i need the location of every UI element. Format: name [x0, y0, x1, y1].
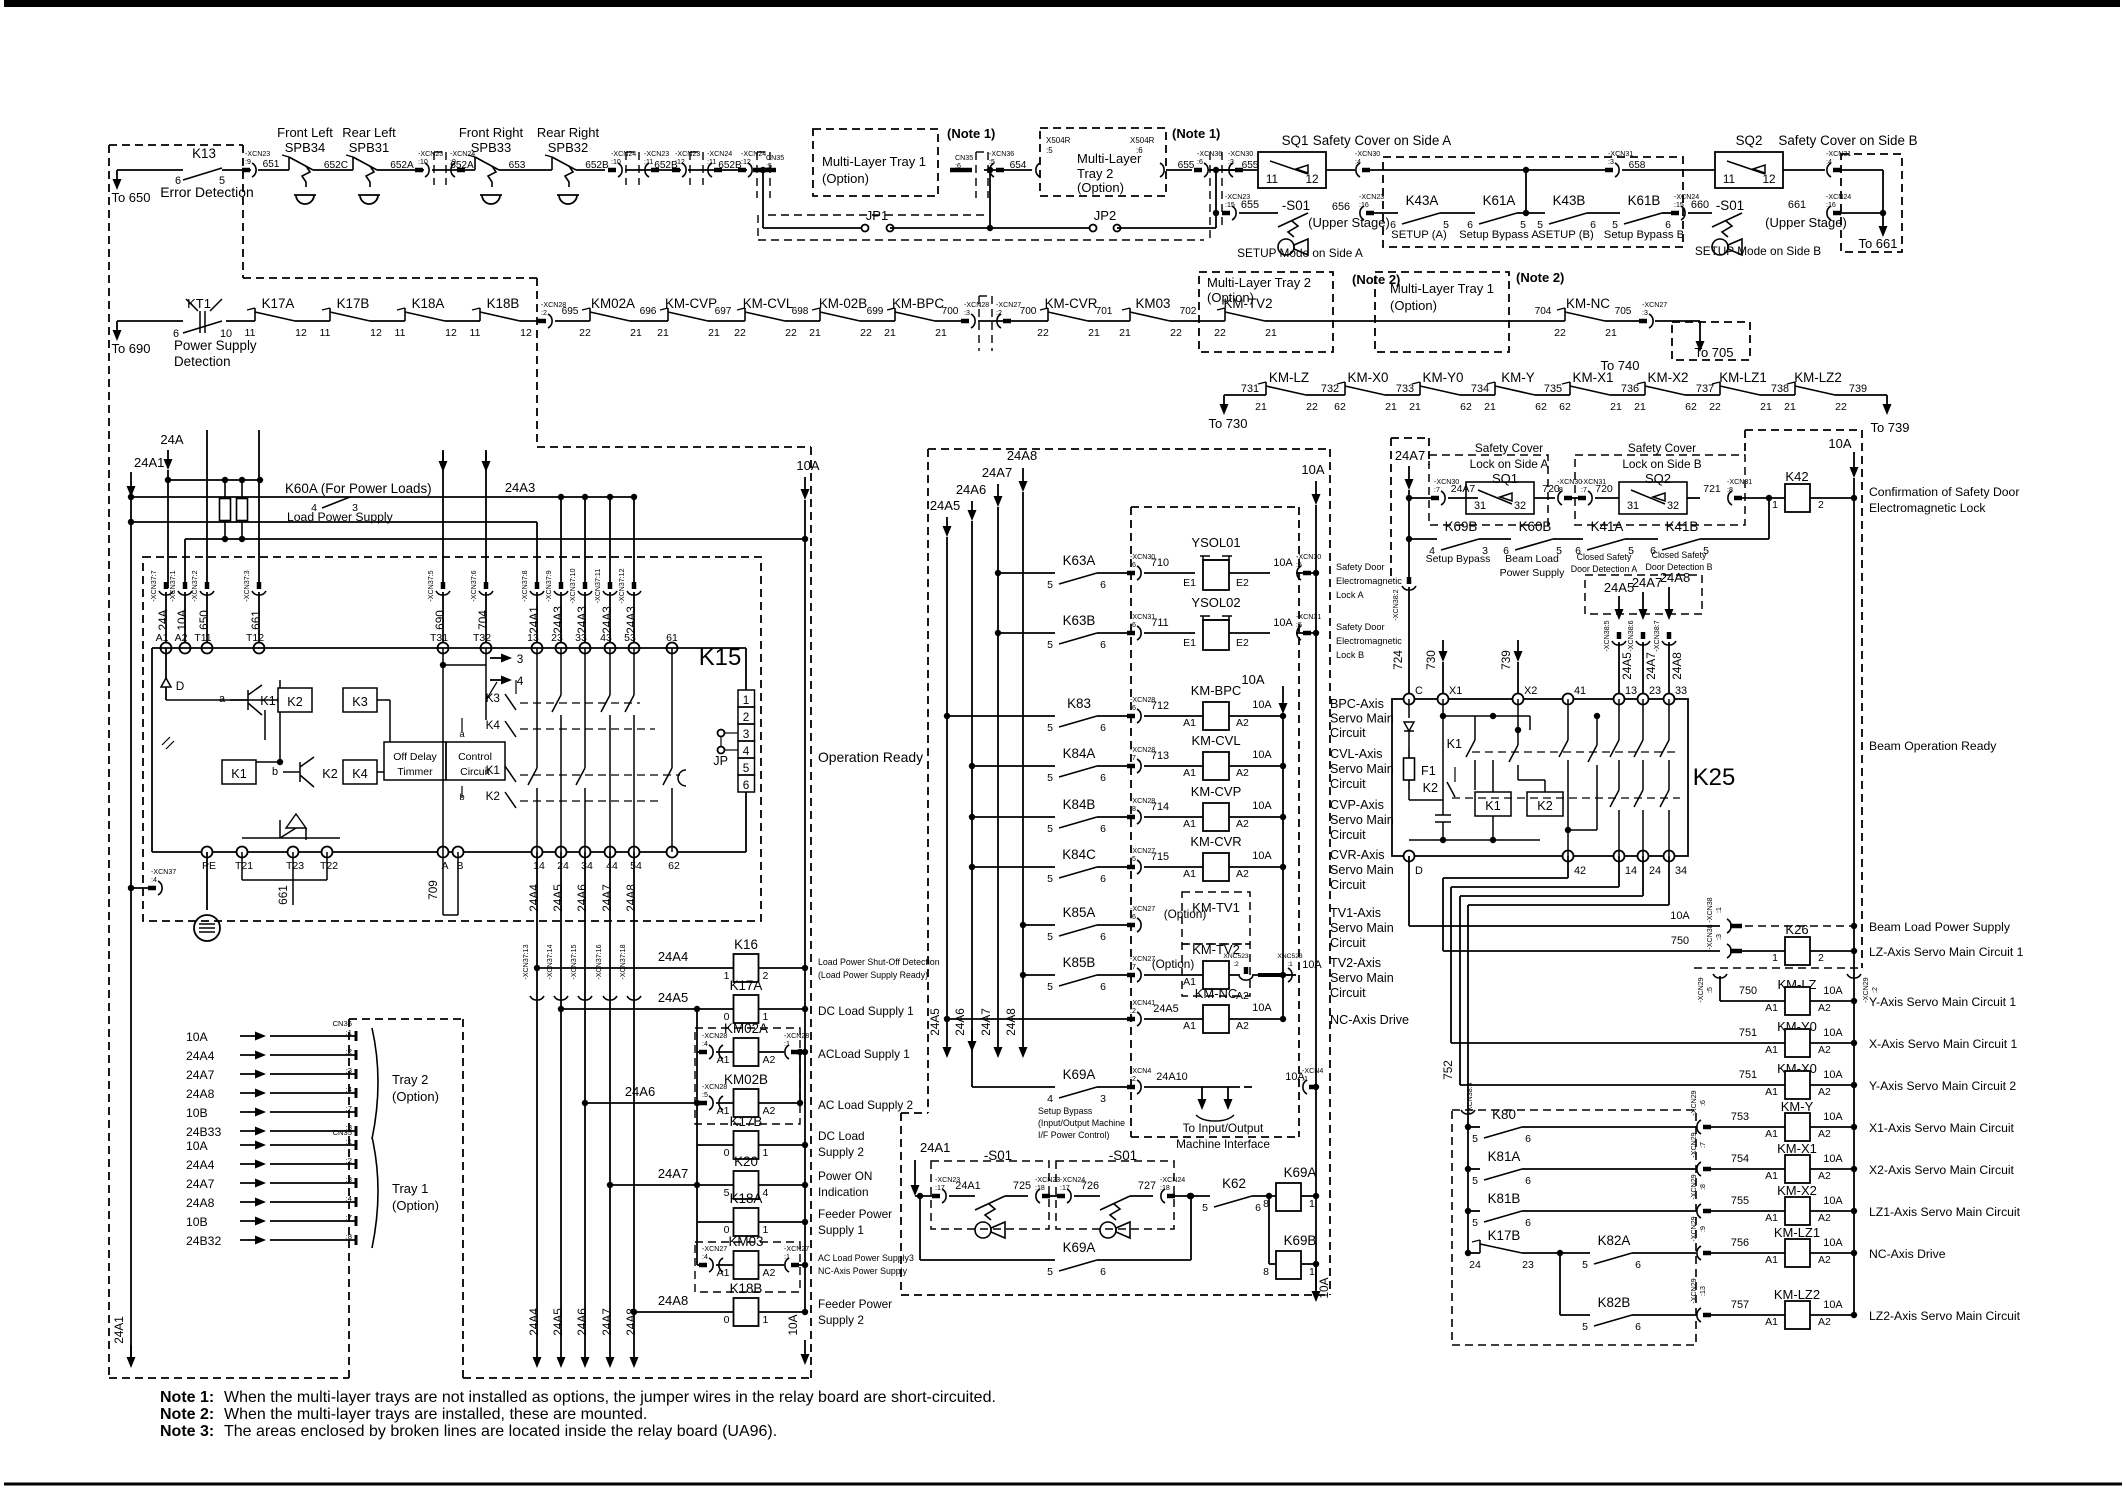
svg-text:K81A: K81A	[1488, 1149, 1521, 1164]
svg-text:(Option): (Option)	[1152, 957, 1195, 971]
svg-text:753: 753	[1731, 1111, 1749, 1123]
svg-text:21: 21	[1119, 327, 1131, 339]
svg-text:-XCN29: -XCN29	[1690, 1132, 1698, 1157]
svg-text:5: 5	[1047, 772, 1053, 784]
svg-text:6: 6	[1100, 639, 1106, 651]
svg-text:24A4: 24A4	[186, 1158, 215, 1172]
svg-text:Circuit: Circuit	[1330, 986, 1366, 1000]
svg-text:K2: K2	[287, 695, 302, 709]
svg-text:K80: K80	[1492, 1107, 1516, 1122]
svg-text:-XCN24: -XCN24	[611, 150, 636, 158]
svg-text:700: 700	[942, 306, 959, 317]
svg-text:A2: A2	[1818, 1170, 1831, 1182]
svg-text:732: 732	[1321, 383, 1339, 395]
svg-text:K41A: K41A	[1591, 519, 1624, 534]
svg-text:SQ2: SQ2	[1645, 471, 1671, 486]
svg-text:Electromagnetic: Electromagnetic	[1336, 576, 1402, 586]
svg-text:Y-Axis Servo Main Circuit 1: Y-Axis Servo Main Circuit 1	[1869, 995, 2016, 1009]
svg-text:23: 23	[1522, 1259, 1534, 1271]
svg-text:Rear Left: Rear Left	[342, 125, 396, 140]
svg-text:701: 701	[1096, 306, 1113, 317]
svg-text:Setup Bypass: Setup Bypass	[1038, 1106, 1093, 1116]
svg-text:756: 756	[1731, 1237, 1749, 1249]
svg-text:8: 8	[1263, 1266, 1269, 1278]
svg-text:6: 6	[1525, 1217, 1531, 1229]
svg-text:24A5: 24A5	[1604, 580, 1634, 595]
svg-text::5: :5	[1296, 621, 1302, 629]
svg-text:CN36: CN36	[333, 1019, 352, 1028]
svg-text:Load Power Shut-Off Detection: Load Power Shut-Off Detection	[818, 957, 940, 967]
svg-text:10A: 10A	[1252, 749, 1272, 761]
svg-text:TV2-Axis: TV2-Axis	[1330, 956, 1381, 970]
svg-text:Setup Bypass: Setup Bypass	[1426, 553, 1491, 565]
svg-text:750: 750	[1671, 935, 1689, 947]
svg-text:10A: 10A	[1252, 800, 1272, 812]
svg-text:652A: 652A	[390, 160, 414, 171]
svg-text::17: :17	[1060, 1184, 1070, 1192]
svg-text:655: 655	[1241, 199, 1259, 211]
svg-text:62: 62	[1460, 401, 1472, 413]
svg-text::6: :6	[1130, 621, 1136, 629]
svg-text:660: 660	[1691, 199, 1709, 211]
svg-text:-S01: -S01	[1716, 198, 1744, 213]
svg-text:10A: 10A	[1828, 436, 1851, 451]
svg-text::3: :3	[346, 1175, 352, 1184]
svg-text:12: 12	[520, 327, 532, 339]
svg-text:Circuit: Circuit	[1330, 828, 1366, 842]
svg-text:696: 696	[640, 306, 657, 317]
svg-text:-XCN30: -XCN30	[1355, 150, 1380, 158]
svg-text:4: 4	[763, 1187, 769, 1199]
svg-text:Door Detection A: Door Detection A	[1571, 564, 1638, 574]
svg-text:5: 5	[1047, 873, 1053, 885]
svg-text:-XCN29: -XCN29	[1690, 1216, 1698, 1241]
svg-text:K16: K16	[734, 937, 758, 952]
svg-text:KM-LZ1: KM-LZ1	[1774, 1225, 1820, 1240]
svg-text:-XCN37:8: -XCN37:8	[521, 570, 529, 601]
svg-text:T22: T22	[320, 860, 338, 872]
svg-text:(Option): (Option)	[822, 171, 869, 186]
svg-text:24: 24	[557, 860, 569, 872]
svg-text:A2: A2	[1818, 1086, 1831, 1098]
svg-text:699: 699	[867, 306, 884, 317]
svg-text:K85B: K85B	[1063, 955, 1096, 970]
svg-text:A1: A1	[1765, 1254, 1778, 1266]
svg-text:10A: 10A	[1670, 910, 1690, 922]
svg-text:-XCN30: -XCN30	[1296, 553, 1321, 561]
svg-text:3: 3	[743, 727, 750, 741]
svg-text:Control: Control	[458, 751, 492, 763]
svg-text:Closed Safety: Closed Safety	[1652, 550, 1707, 560]
svg-text:702: 702	[1180, 306, 1197, 317]
svg-text::2: :2	[996, 309, 1002, 317]
svg-text:(Option): (Option)	[392, 1198, 439, 1213]
svg-text:10A: 10A	[1823, 1153, 1843, 1165]
svg-text:Servo Main: Servo Main	[1330, 762, 1394, 776]
svg-text:44: 44	[606, 860, 618, 872]
svg-text:726: 726	[1081, 1180, 1099, 1192]
svg-text::2: :2	[1233, 961, 1239, 968]
svg-text:33: 33	[1675, 685, 1687, 697]
svg-text:10A: 10A	[175, 609, 189, 630]
svg-text:F1: F1	[1421, 764, 1436, 778]
svg-text:24A8: 24A8	[1660, 570, 1690, 585]
svg-text::4: :4	[702, 1253, 708, 1261]
svg-text:24A6: 24A6	[575, 884, 589, 912]
svg-text:5: 5	[1047, 823, 1053, 835]
svg-text:A2: A2	[1236, 818, 1249, 830]
svg-text:3: 3	[1100, 1093, 1106, 1105]
svg-text:24A1: 24A1	[112, 1316, 126, 1344]
svg-text:24A7: 24A7	[600, 1308, 614, 1336]
svg-text:13: 13	[1625, 685, 1637, 697]
svg-text:752: 752	[1441, 1060, 1455, 1080]
svg-text::4: :4	[346, 1194, 352, 1203]
svg-text:22: 22	[1709, 401, 1721, 413]
svg-text:D: D	[176, 679, 185, 693]
svg-text::3: :3	[346, 1066, 352, 1075]
svg-text:Safety Cover: Safety Cover	[1475, 441, 1543, 455]
svg-text:5: 5	[1047, 579, 1053, 591]
svg-text::5: :5	[1706, 987, 1714, 993]
svg-text::13: :13	[1699, 1286, 1707, 1296]
svg-text:KM-CVR: KM-CVR	[1045, 296, 1098, 311]
svg-text:K84B: K84B	[1063, 797, 1096, 812]
svg-text::16: :16	[1826, 201, 1836, 209]
svg-text:21: 21	[1605, 327, 1617, 339]
svg-text:-XCN38:6: -XCN38:6	[1627, 620, 1635, 651]
svg-text:61: 61	[666, 632, 678, 644]
svg-text:-XCN37:7: -XCN37:7	[150, 570, 158, 601]
svg-text:X504R: X504R	[1130, 136, 1155, 145]
svg-text:655: 655	[1178, 160, 1195, 171]
svg-text:11: 11	[470, 327, 481, 339]
svg-text:24A1: 24A1	[955, 1180, 980, 1192]
svg-text:Multi-Layer Tray 2: Multi-Layer Tray 2	[1207, 275, 1311, 290]
svg-text:24A3: 24A3	[505, 480, 535, 495]
svg-text:Tray 1: Tray 1	[392, 1181, 428, 1196]
svg-text::8: :8	[346, 1232, 352, 1241]
svg-text:24A5: 24A5	[930, 498, 960, 513]
svg-text:X2: X2	[1524, 685, 1537, 697]
svg-text:Electromagnetic Lock: Electromagnetic Lock	[1869, 501, 1986, 515]
svg-text:1: 1	[1309, 1266, 1315, 1278]
svg-text:Confirmation of Safety Door: Confirmation of Safety Door	[1869, 485, 2019, 499]
svg-text:31: 31	[1474, 500, 1486, 512]
svg-text:CVP-Axis: CVP-Axis	[1330, 798, 1384, 812]
svg-text:-XCN37:5: -XCN37:5	[427, 570, 435, 601]
svg-text:AC Load Supply 2: AC Load Supply 2	[818, 1098, 913, 1112]
svg-text:CN35: CN35	[955, 154, 973, 162]
svg-text:DC Load: DC Load	[818, 1129, 865, 1143]
svg-text:A2: A2	[1236, 717, 1249, 729]
svg-text:Servo Main: Servo Main	[1330, 712, 1394, 726]
svg-text:C: C	[1415, 685, 1423, 697]
svg-text:24A6: 24A6	[956, 482, 986, 497]
svg-text::3: :3	[1608, 158, 1614, 166]
svg-text::8: :8	[1699, 1184, 1707, 1190]
svg-text:-XCN27: -XCN27	[1130, 905, 1155, 913]
svg-text:6: 6	[743, 778, 750, 792]
svg-text:31: 31	[1627, 500, 1639, 512]
svg-text:14: 14	[1625, 865, 1637, 877]
svg-text:SPB32: SPB32	[548, 140, 588, 155]
svg-text::8: :8	[1557, 486, 1563, 494]
svg-text:XNC523: XNC523	[1277, 953, 1303, 960]
svg-text::7: :7	[1130, 754, 1136, 762]
svg-text:713: 713	[1151, 750, 1169, 762]
svg-text:-XCN29: -XCN29	[1690, 1278, 1698, 1303]
svg-text:24A1: 24A1	[920, 1140, 950, 1155]
svg-text:-XCN23: -XCN23	[675, 150, 700, 158]
svg-text:22: 22	[1306, 401, 1318, 413]
svg-text:K84C: K84C	[1062, 847, 1096, 862]
svg-text:Feeder Power: Feeder Power	[818, 1207, 892, 1221]
svg-text:24: 24	[1469, 1259, 1481, 1271]
svg-text:22: 22	[1214, 327, 1226, 339]
svg-text:24A3: 24A3	[551, 606, 565, 634]
svg-text:-XCN38:5: -XCN38:5	[1603, 620, 1611, 651]
svg-text:A2: A2	[763, 1054, 776, 1066]
svg-text::5: :5	[702, 1091, 708, 1099]
svg-text:-XCN27: -XCN27	[784, 1245, 809, 1253]
svg-text:DC Load Supply 1: DC Load Supply 1	[818, 1004, 914, 1018]
svg-text:-S01: -S01	[1282, 198, 1310, 213]
svg-text:CVR-Axis: CVR-Axis	[1330, 848, 1385, 862]
svg-text:Machine Interface: Machine Interface	[1176, 1137, 1270, 1151]
svg-text:736: 736	[1621, 383, 1639, 395]
svg-text:730: 730	[1424, 650, 1438, 670]
svg-text:24A3: 24A3	[624, 606, 638, 634]
svg-text:10A: 10A	[796, 458, 819, 473]
svg-text:697: 697	[715, 306, 732, 317]
svg-text:(Load Power Supply Ready): (Load Power Supply Ready)	[818, 970, 928, 980]
svg-text:K69B: K69B	[1445, 519, 1478, 534]
svg-text::10: :10	[418, 158, 428, 166]
svg-text::2: :2	[1130, 1007, 1136, 1015]
svg-text::4: :4	[1826, 158, 1832, 166]
svg-text:E2: E2	[1236, 637, 1249, 649]
svg-text:21: 21	[657, 327, 669, 339]
svg-text:12: 12	[370, 327, 382, 339]
svg-text:1: 1	[743, 693, 750, 707]
svg-text:705: 705	[1615, 306, 1632, 317]
svg-text:T21: T21	[235, 860, 253, 872]
svg-text:KM-NC: KM-NC	[1195, 986, 1238, 1001]
svg-text:24A6: 24A6	[625, 1084, 655, 1099]
svg-text:24A5: 24A5	[551, 1308, 565, 1336]
svg-text:10A: 10A	[186, 1139, 209, 1153]
svg-text:The areas enclosed by broken l: The areas enclosed by broken lines are l…	[224, 1423, 777, 1440]
svg-text:751: 751	[1739, 1069, 1757, 1081]
svg-text:Circuit: Circuit	[1330, 936, 1366, 950]
svg-text:-XCN28: -XCN28	[784, 1032, 809, 1040]
svg-text:(Upper Stage): (Upper Stage)	[1308, 215, 1390, 230]
svg-text:K69A: K69A	[1284, 1165, 1317, 1180]
svg-text:-XCN37:3: -XCN37:3	[243, 570, 251, 601]
svg-text:K43A: K43A	[1406, 193, 1439, 208]
svg-text:To 730: To 730	[1208, 416, 1247, 431]
svg-text:22: 22	[1037, 327, 1049, 339]
svg-text:21: 21	[630, 327, 642, 339]
svg-text::3: :3	[1642, 309, 1648, 317]
svg-text:62: 62	[1559, 401, 1571, 413]
svg-text:24A4: 24A4	[186, 1049, 215, 1063]
svg-text:To 690: To 690	[111, 341, 150, 356]
svg-text:A1: A1	[1183, 767, 1196, 779]
svg-text:24A7: 24A7	[600, 884, 614, 912]
svg-text:(Upper Stage): (Upper Stage)	[1765, 215, 1847, 230]
svg-text:A1: A1	[1765, 1002, 1778, 1014]
svg-text:1: 1	[1772, 952, 1778, 964]
svg-text:X1: X1	[1449, 685, 1462, 697]
svg-text:724: 724	[1391, 650, 1405, 670]
svg-text:22: 22	[1170, 327, 1182, 339]
svg-text:SQ2: SQ2	[1736, 133, 1763, 148]
svg-text:Note 2:: Note 2:	[160, 1406, 214, 1423]
svg-text:-XCN37: -XCN37	[151, 868, 176, 876]
svg-text:652C: 652C	[324, 160, 348, 171]
svg-text:Power ON: Power ON	[818, 1169, 872, 1183]
svg-text:-XCN4: -XCN4	[1130, 1067, 1151, 1075]
svg-text:A2: A2	[1818, 1128, 1831, 1140]
svg-text:10A: 10A	[1241, 672, 1264, 687]
svg-text:K1: K1	[1485, 799, 1500, 813]
svg-text:A1: A1	[1183, 1020, 1196, 1032]
svg-text:Servo Main: Servo Main	[1330, 813, 1394, 827]
svg-text:-XCN30: -XCN30	[1557, 478, 1582, 486]
svg-text:SQ1: SQ1	[1492, 471, 1518, 486]
svg-text:SETUP Mode on Side B: SETUP Mode on Side B	[1695, 244, 1821, 258]
svg-text::16: :16	[1359, 201, 1369, 209]
svg-text:KM-LZ1: KM-LZ1	[1719, 370, 1767, 385]
svg-text:34: 34	[1675, 865, 1687, 877]
svg-text::8: :8	[1130, 805, 1136, 813]
svg-text:KM-LZ2: KM-LZ2	[1794, 370, 1842, 385]
svg-text:KM03: KM03	[1136, 296, 1171, 311]
svg-text:-XCN37:2: -XCN37:2	[191, 570, 199, 601]
svg-text:-XCN29: -XCN29	[1690, 1174, 1698, 1199]
svg-text:5: 5	[1047, 639, 1053, 651]
svg-text:-XCN24: -XCN24	[1826, 193, 1851, 201]
svg-text:6: 6	[1100, 579, 1106, 591]
svg-text:24A1: 24A1	[527, 606, 541, 634]
svg-text:24A1: 24A1	[134, 455, 164, 470]
svg-text:12: 12	[295, 327, 307, 339]
svg-text:24A7: 24A7	[1451, 483, 1476, 495]
svg-text:751: 751	[1739, 1027, 1757, 1039]
svg-text:24A8: 24A8	[624, 884, 638, 912]
svg-text:34: 34	[581, 860, 593, 872]
svg-text:b: b	[272, 766, 278, 778]
svg-text:KM02A: KM02A	[591, 296, 635, 311]
svg-text::17: :17	[935, 1184, 945, 1192]
svg-text:A1: A1	[1183, 868, 1196, 880]
svg-text:11: 11	[245, 327, 256, 339]
svg-text:-XCN37:11: -XCN37:11	[594, 569, 602, 604]
svg-text:NC-Axis Drive: NC-Axis Drive	[1330, 1013, 1409, 1027]
svg-text:A2: A2	[1818, 1044, 1831, 1056]
svg-text:KM-LZ: KM-LZ	[1269, 370, 1309, 385]
svg-text:41: 41	[1574, 685, 1586, 697]
svg-text:-XCN29: -XCN29	[1697, 977, 1705, 1002]
svg-text:Lock on Side B: Lock on Side B	[1622, 457, 1701, 471]
svg-text:K83: K83	[1067, 696, 1091, 711]
svg-text:-S01: -S01	[984, 1148, 1012, 1163]
svg-text:709: 709	[426, 880, 440, 900]
svg-text:1: 1	[1772, 499, 1778, 511]
svg-text:KM-X0: KM-X0	[1348, 370, 1389, 385]
svg-text:10A: 10A	[1301, 462, 1324, 477]
svg-text:54: 54	[630, 860, 642, 872]
svg-text:14: 14	[533, 860, 545, 872]
svg-text::4: :4	[702, 1040, 708, 1048]
svg-text:-XCN37:10: -XCN37:10	[569, 568, 577, 603]
svg-text::7: :7	[1699, 1142, 1707, 1148]
svg-text:-XCN38:4: -XCN38:4	[1466, 1082, 1474, 1113]
svg-text::7: :7	[1130, 963, 1136, 971]
svg-text:A2: A2	[1818, 1254, 1831, 1266]
svg-text:24A8: 24A8	[658, 1293, 688, 1308]
svg-text:710: 710	[1151, 557, 1169, 569]
svg-text:A2: A2	[1818, 1212, 1831, 1224]
svg-text:21: 21	[1409, 401, 1421, 413]
svg-text:10A: 10A	[1823, 985, 1843, 997]
svg-text:21: 21	[1385, 401, 1397, 413]
svg-text:(Option): (Option)	[1164, 907, 1207, 921]
svg-text:KM-Y0: KM-Y0	[1423, 370, 1464, 385]
svg-text:21: 21	[1760, 401, 1772, 413]
svg-text:10B: 10B	[186, 1106, 208, 1120]
svg-text:CVL-Axis: CVL-Axis	[1330, 747, 1382, 761]
svg-text:24B33: 24B33	[186, 1125, 221, 1139]
svg-text::4: :4	[1355, 158, 1361, 166]
svg-text:KM-LZ2: KM-LZ2	[1774, 1287, 1820, 1302]
svg-text:Feeder Power: Feeder Power	[818, 1297, 892, 1311]
svg-text:Front Left: Front Left	[277, 125, 333, 140]
svg-text:Tray 2: Tray 2	[392, 1072, 428, 1087]
svg-text:22: 22	[734, 327, 746, 339]
svg-text::5: :5	[1046, 146, 1053, 155]
svg-text:K2: K2	[322, 767, 337, 781]
svg-text:734: 734	[1471, 383, 1489, 395]
svg-text:I/F Power Control): I/F Power Control)	[1038, 1130, 1109, 1140]
svg-text:SPB31: SPB31	[349, 140, 389, 155]
svg-text:1: 1	[763, 1314, 769, 1326]
svg-text:5: 5	[1047, 931, 1053, 943]
svg-text:22: 22	[785, 327, 797, 339]
svg-text:KM02B: KM02B	[724, 1072, 768, 1087]
svg-text:721: 721	[1703, 483, 1721, 495]
svg-text:24A5: 24A5	[551, 884, 565, 912]
svg-text:5: 5	[1047, 1266, 1053, 1278]
svg-text:Beam Load Power Supply: Beam Load Power Supply	[1869, 920, 2011, 934]
svg-text:10A: 10A	[1252, 699, 1272, 711]
svg-text:Circuit: Circuit	[1330, 777, 1366, 791]
svg-text:5: 5	[1047, 981, 1053, 993]
svg-text:KM-CVL: KM-CVL	[743, 296, 794, 311]
svg-text::8: :8	[1727, 486, 1733, 494]
svg-text:0: 0	[724, 1147, 730, 1159]
svg-text:11: 11	[1266, 172, 1278, 186]
svg-text:-XCN24: -XCN24	[1160, 1176, 1185, 1184]
svg-text:-XCN41: -XCN41	[1130, 999, 1155, 1007]
svg-text:2: 2	[743, 710, 750, 724]
svg-text:-XCN31: -XCN31	[1727, 478, 1752, 486]
svg-text:Servo Main: Servo Main	[1330, 921, 1394, 935]
svg-text:Electromagnetic: Electromagnetic	[1336, 636, 1402, 646]
svg-text:-XCN23: -XCN23	[1359, 193, 1384, 201]
